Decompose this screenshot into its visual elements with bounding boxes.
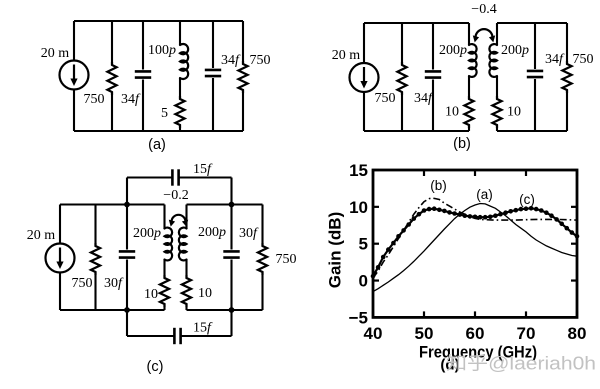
svg-text:100p: 100p [148, 43, 176, 58]
svg-text:750: 750 [573, 52, 594, 67]
svg-text:知乎@laeriah0h: 知乎@laeriah0h [446, 354, 596, 374]
svg-text:750: 750 [276, 252, 297, 267]
svg-text:10: 10 [507, 105, 521, 120]
svg-text:(a): (a) [148, 137, 166, 153]
svg-text:200p: 200p [501, 43, 529, 58]
svg-text:10: 10 [445, 105, 459, 120]
svg-text:10: 10 [198, 286, 212, 301]
svg-text:200p: 200p [133, 226, 161, 241]
svg-text:0: 0 [359, 272, 368, 291]
svg-text:(b): (b) [430, 178, 447, 193]
svg-text:−0.2: −0.2 [163, 188, 188, 203]
svg-text:(b): (b) [453, 136, 471, 152]
svg-text:15f: 15f [193, 321, 213, 336]
svg-text:200p: 200p [439, 43, 467, 58]
svg-text:15: 15 [349, 161, 368, 180]
svg-text:34f: 34f [221, 53, 241, 68]
svg-text:750: 750 [375, 91, 396, 106]
svg-text:15f: 15f [193, 162, 213, 177]
svg-text:30f: 30f [239, 226, 259, 241]
svg-text:5: 5 [161, 106, 168, 121]
svg-text:10: 10 [349, 198, 368, 217]
svg-text:5: 5 [359, 235, 368, 254]
svg-text:40: 40 [364, 324, 383, 343]
svg-text:70: 70 [517, 324, 536, 343]
svg-text:20 m: 20 m [41, 46, 70, 61]
svg-text:(a): (a) [476, 187, 493, 202]
svg-text:34f: 34f [121, 92, 141, 107]
svg-text:30f: 30f [104, 276, 124, 291]
svg-text:20 m: 20 m [27, 228, 56, 243]
svg-text:750: 750 [250, 53, 271, 68]
svg-text:(c): (c) [519, 192, 535, 207]
svg-text:Gain (dB): Gain (dB) [326, 212, 345, 289]
svg-text:(c): (c) [147, 359, 164, 375]
svg-text:200p: 200p [198, 225, 226, 240]
svg-text:80: 80 [568, 324, 587, 343]
svg-text:750: 750 [84, 92, 105, 107]
svg-text:50: 50 [415, 324, 434, 343]
svg-text:60: 60 [466, 324, 485, 343]
svg-text:10: 10 [144, 287, 158, 302]
svg-text:34f: 34f [414, 91, 434, 106]
svg-text:−0.4: −0.4 [471, 2, 496, 17]
svg-text:20 m: 20 m [332, 48, 361, 63]
svg-text:750: 750 [72, 276, 93, 291]
svg-text:34f: 34f [545, 52, 565, 67]
